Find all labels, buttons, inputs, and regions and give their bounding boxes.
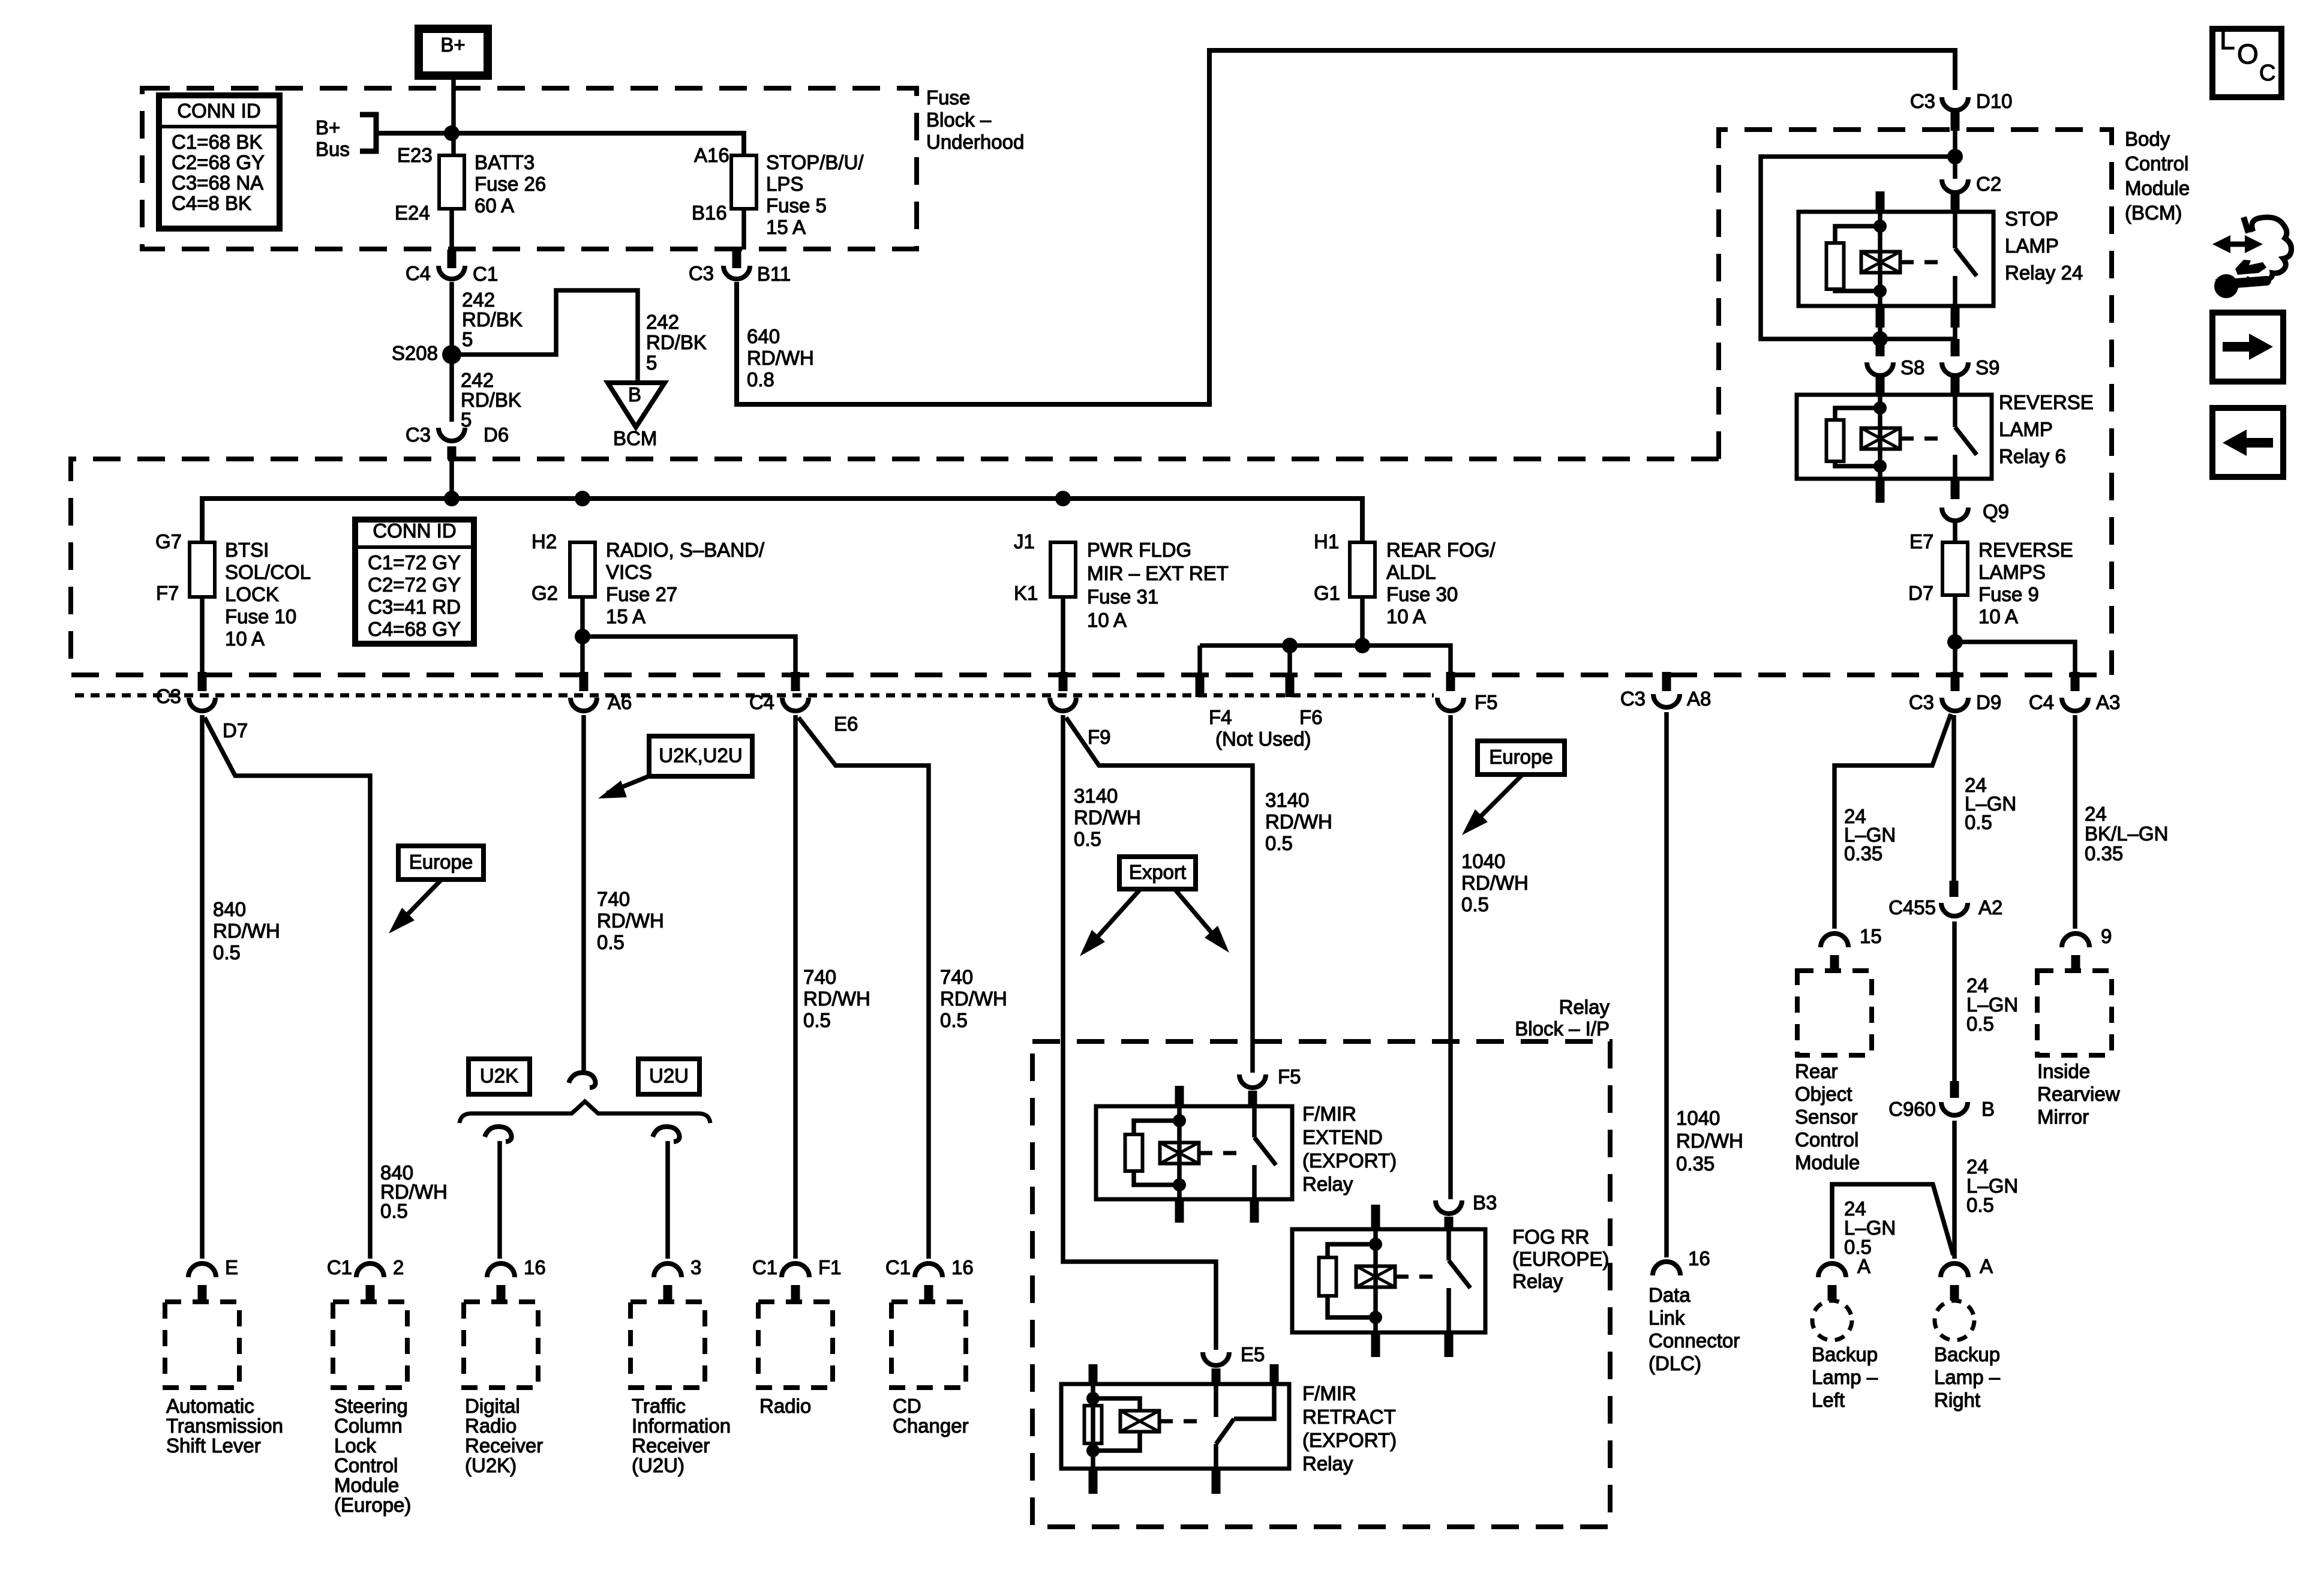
wire 242 RD/BK (S208 down) [449,362,454,422]
adjust icon (hand with wrench) [2222,242,2254,247]
svg-text:740: 740 [940,966,973,988]
svg-text:B: B [628,383,641,406]
svg-text:C455: C455 [1888,896,1936,918]
wire U2U branch [665,1141,670,1259]
svg-text:Relay 6: Relay 6 [1999,445,2066,467]
svg-text:0.5: 0.5 [940,1009,968,1031]
svg-text:REVERSE: REVERSE [1978,539,2073,561]
connector row dashed line [75,694,1434,698]
svg-text:1040: 1040 [1676,1107,1720,1129]
left arrow box [2212,408,2283,477]
svg-text:3140: 3140 [1265,789,1309,811]
wire radio fuse down [580,597,585,676]
svg-text:740: 740 [597,888,630,910]
svg-text:Mirror: Mirror [2037,1106,2089,1128]
svg-text:C3=68 NA: C3=68 NA [172,172,263,194]
svg-text:Block – I/P: Block – I/P [1515,1017,1610,1040]
svg-text:Rear: Rear [1795,1060,1838,1082]
svg-text:RD/WH: RD/WH [1676,1130,1743,1152]
connector S9 [1951,339,1960,356]
Inside Rearview Mirror box [2037,971,2112,1055]
svg-text:B+: B+ [440,34,465,56]
svg-text:C2=72 GY: C2=72 GY [368,574,461,596]
fuse BATT3 Fuse 26 60A [439,155,464,209]
wire B+ to fuse block [451,76,456,155]
svg-text:Object: Object [1795,1083,1852,1105]
svg-text:C3: C3 [1620,688,1646,710]
svg-text:BCM: BCM [613,427,657,449]
connector A6 [580,672,588,691]
svg-text:Inside: Inside [2037,1060,2090,1082]
power feed B+ box [419,29,488,76]
connector A (backup lamp right) [1941,1263,1968,1277]
svg-text:F4: F4 [1209,706,1232,728]
svg-text:RD/WH: RD/WH [747,347,814,369]
svg-text:1040: 1040 [1461,850,1505,872]
svg-text:0.5: 0.5 [380,1200,408,1222]
connector B3 (fog relay terminal) [1436,1200,1462,1214]
svg-text:SOL/COL: SOL/COL [225,561,311,583]
wire 1040 RD/WH (A8 to DLC) [1664,712,1669,1257]
Export arrow left [1087,889,1140,948]
svg-text:(DLC): (DLC) [1649,1352,1701,1374]
connector C1/2 + Steering Column Lock Control Module [356,1263,384,1277]
svg-text:CONN ID: CONN ID [177,100,260,122]
in-line connector (U2K branch) [485,1127,512,1142]
svg-text:RD/WH: RD/WH [213,920,280,942]
svg-text:CONN ID: CONN ID [373,520,456,542]
svg-text:A2: A2 [1978,896,2002,918]
svg-text:C4=8 BK: C4=8 BK [172,192,251,214]
svg-text:RD/WH: RD/WH [1265,810,1332,833]
connector C3/D10 [1942,97,1968,110]
svg-text:242: 242 [462,289,495,311]
svg-text:Fuse 31: Fuse 31 [1087,586,1158,608]
svg-text:(EXPORT): (EXPORT) [1302,1429,1397,1451]
svg-text:740: 740 [803,966,836,988]
svg-text:Data: Data [1649,1284,1691,1306]
svg-text:H1: H1 [1314,530,1339,553]
svg-text:B16: B16 [692,202,727,224]
svg-text:0.35: 0.35 [1676,1152,1715,1175]
svg-text:Fuse 9: Fuse 9 [1978,583,2039,605]
svg-text:Changer: Changer [893,1415,969,1437]
LOC reference box [2212,29,2281,97]
svg-text:C4: C4 [749,691,774,713]
svg-text:D9: D9 [1976,691,2001,713]
svg-text:15: 15 [1860,925,1882,947]
wire B+ bus [376,133,744,155]
svg-text:RD/BK: RD/BK [646,331,707,353]
svg-text:16: 16 [951,1256,974,1278]
wire 840 RD/WH (D7 to shift lever) [200,715,205,1259]
wire 24 L-GN branch to left backup lamp [1832,1184,1953,1259]
svg-text:C1: C1 [752,1256,777,1278]
fuse REVERSE LAMPS Fuse 9 [1942,542,1968,595]
svg-text:5: 5 [461,409,472,431]
svg-text:Sensor: Sensor [1795,1106,1858,1128]
svg-text:U2K: U2K [480,1065,518,1087]
svg-text:Lamp –: Lamp – [1812,1366,1878,1388]
U2K,U2U option box [649,736,752,776]
svg-text:Q9: Q9 [1983,500,2009,523]
svg-text:LOCK: LOCK [225,583,279,605]
Body Control Module dashed box [1719,130,2112,675]
svg-text:Module: Module [2125,177,2190,199]
svg-text:C3: C3 [406,424,431,446]
svg-text:0.35: 0.35 [2085,842,2123,864]
svg-text:(EXPORT): (EXPORT) [1302,1149,1397,1172]
svg-text:L: L [2220,24,2235,55]
svg-text:Lock: Lock [334,1434,376,1457]
svg-text:Receiver: Receiver [465,1434,543,1457]
svg-text:E7: E7 [1909,530,1933,553]
svg-text:(U2U): (U2U) [632,1454,684,1476]
svg-text:Automatic: Automatic [166,1395,254,1417]
connector C960/B [1950,1081,1959,1098]
svg-text:B: B [1981,1098,1995,1120]
svg-text:REVERSE: REVERSE [1999,391,2094,413]
CONN ID table (underhood fuse block) [159,95,280,229]
connector C3/B11 [732,250,741,268]
svg-text:G2: G2 [532,582,558,604]
junction dot fuse 9 output [1947,634,1963,650]
Fuse Block - Underhood dashed box [142,88,917,249]
wire branch to E6 [582,637,795,676]
svg-text:D6: D6 [484,424,509,446]
options brace U2K/U2U [460,1101,710,1123]
junction dot S8 branch [1872,331,1888,347]
relay FOG RR (EUROPE) [1292,1229,1485,1332]
connector E5 (retract relay terminal) [1203,1352,1229,1365]
svg-text:0.5: 0.5 [1461,893,1489,915]
fuse STOP/B/U/LPS Fuse 5 15A [731,155,756,209]
right arrow box [2212,313,2283,382]
wire BTSI fuse to D7 [200,597,205,676]
connector C3/A8 [1662,672,1671,691]
svg-text:C2: C2 [1976,173,2001,195]
svg-text:F7: F7 [156,582,179,604]
svg-text:STOP: STOP [2005,208,2058,230]
svg-text:Relay: Relay [1302,1173,1353,1195]
junction dot bus at fuse 31 [1055,491,1071,506]
svg-text:Transmission: Transmission [166,1415,283,1437]
svg-text:F/MIR: F/MIR [1302,1382,1356,1404]
svg-text:A: A [1857,1255,1870,1277]
U2U option box (receiver) [638,1059,699,1094]
wire 24 L-GN (C455 to C960) [1952,921,1957,1081]
svg-text:Backup: Backup [1934,1343,2000,1365]
svg-text:A8: A8 [1687,688,1711,710]
svg-text:C1=68 BK: C1=68 BK [172,131,262,153]
relay STOP LAMP Relay 24 [1798,212,1993,306]
svg-text:D7: D7 [1908,582,1933,604]
svg-text:RD/WH: RD/WH [597,909,664,932]
svg-text:S9: S9 [1975,356,1999,379]
svg-text:RD/WH: RD/WH [803,987,870,1010]
wire 242 RD/BK (S208 to BCM B) [452,290,638,383]
svg-text:24: 24 [2085,803,2107,825]
svg-text:Block –: Block – [926,109,992,131]
svg-text:E: E [225,1256,238,1278]
svg-text:F5: F5 [1278,1065,1301,1088]
in-line connector (A6 harness) [569,1073,596,1088]
svg-text:C3: C3 [1910,90,1935,112]
svg-text:(U2K): (U2K) [465,1454,517,1476]
svg-text:F/MIR: F/MIR [1302,1103,1356,1125]
wire Q9 to fuse 9 [1953,521,1957,542]
svg-text:RETRACT: RETRACT [1302,1406,1396,1428]
svg-text:C1: C1 [473,263,498,285]
svg-text:Fuse 10: Fuse 10 [225,605,296,628]
wire 840 RD/WH Europe branch [205,718,370,1259]
connector C4/C1 [448,250,457,268]
svg-text:B+: B+ [316,116,340,139]
connector C4/A3 [2071,672,2080,691]
svg-text:C4: C4 [2029,691,2054,713]
connector C455/A2 [1950,881,1959,897]
svg-text:Radio: Radio [465,1415,517,1437]
connector C3/D9 [1951,672,1960,691]
svg-text:Fuse 30: Fuse 30 [1386,583,1458,605]
svg-text:Fuse: Fuse [926,86,970,109]
svg-text:242: 242 [461,369,494,391]
svg-text:16: 16 [524,1256,546,1278]
Europe arrow (b) [1469,775,1523,828]
svg-text:H2: H2 [532,530,557,553]
svg-text:(BCM): (BCM) [2125,202,2182,224]
wire fuse 31 to F9 [1061,597,1065,676]
svg-text:Relay: Relay [1559,996,1610,1018]
svg-text:F9: F9 [1088,726,1111,748]
svg-text:B11: B11 [757,263,791,285]
svg-text:Control: Control [1795,1128,1858,1151]
svg-text:Left: Left [1812,1389,1845,1411]
svg-text:Europe: Europe [1489,746,1553,768]
svg-text:F1: F1 [818,1256,842,1278]
fuse REAR FOG/ALDL Fuse 30 [1350,542,1375,597]
svg-text:K1: K1 [1014,582,1038,604]
svg-text:0.5: 0.5 [803,1009,831,1031]
svg-text:BK/L–GN: BK/L–GN [2085,822,2168,845]
svg-text:Information: Information [632,1415,731,1437]
svg-text:5: 5 [462,328,473,350]
svg-text:F6: F6 [1299,706,1323,728]
wire U2K branch [497,1141,502,1259]
CONN ID table (I/P connectors) [355,520,474,644]
wire fuse 30 to F4/F6/F5 [1360,597,1365,646]
connector C4/E6 [791,672,800,691]
svg-text:LAMP: LAMP [2005,235,2059,257]
Europe option box (fog rr) [1478,741,1565,775]
svg-text:RD/WH: RD/WH [1461,872,1529,894]
svg-text:C: C [2259,61,2275,86]
wire 740 RD/WH (E6 to radio) [793,715,798,1259]
svg-text:PWR FLDG: PWR FLDG [1087,539,1191,561]
svg-text:Fuse 27: Fuse 27 [606,583,677,605]
relay F/MIR RETRACT (EXPORT) [1061,1384,1289,1469]
wire 242 RD/BK (C1 to S208) [449,282,454,347]
svg-text:840: 840 [213,898,246,920]
connector 3 + Traffic Information Receiver [654,1263,681,1277]
svg-text:ALDL: ALDL [1386,561,1436,583]
svg-text:Control: Control [334,1454,398,1476]
svg-text:Lamp –: Lamp – [1934,1366,2001,1388]
svg-text:C1: C1 [885,1256,911,1278]
connector A (backup lamp left) [1818,1263,1846,1277]
svg-text:Export: Export [1129,861,1186,883]
wire 1040 RD/WH (F5 to fog relay) [1448,715,1453,1199]
svg-text:Steering: Steering [334,1395,408,1417]
svg-text:U2K,U2U: U2K,U2U [659,745,742,767]
svg-text:Europe: Europe [409,851,473,873]
svg-text:Link: Link [1649,1307,1685,1329]
svg-text:Module: Module [334,1474,399,1496]
svg-text:BTSI: BTSI [225,539,269,561]
svg-text:Receiver: Receiver [632,1434,710,1457]
svg-text:(Not Used): (Not Used) [1215,728,1311,750]
svg-text:E23: E23 [397,144,433,166]
svg-text:Digital: Digital [465,1395,520,1417]
svg-text:C4=68 GY: C4=68 GY [368,618,461,640]
svg-text:60 A: 60 A [475,194,514,217]
svg-text:Backup: Backup [1812,1343,1878,1365]
svg-text:Relay: Relay [1302,1452,1353,1475]
wire BCM loop to reverse relay [1761,157,1955,339]
svg-text:J1: J1 [1014,530,1035,553]
junction dot bus at D6 feed [444,491,460,506]
backup lamp right symbol [1935,1301,1974,1340]
wire 740 RD/WH (A6 down) [581,715,586,1074]
svg-text:C3: C3 [156,685,181,707]
svg-text:D10: D10 [1976,90,2013,112]
svg-text:REAR FOG/: REAR FOG/ [1386,539,1496,561]
wire 3140 RD/WH (F9 to extend relay) [1066,718,1253,1073]
svg-text:VICS: VICS [606,561,652,583]
svg-text:RADIO, S–BAND/: RADIO, S–BAND/ [606,539,765,561]
svg-text:10 A: 10 A [225,628,265,650]
svg-text:S8: S8 [1900,356,1924,379]
wire D6 to bus [449,460,454,499]
svg-text:S208: S208 [392,342,438,364]
BCM B triangle destination [608,383,665,427]
svg-text:MIR – EXT RET: MIR – EXT RET [1087,562,1229,584]
svg-text:EXTEND: EXTEND [1302,1126,1383,1148]
wire D10 to C2 [1953,131,1957,179]
svg-text:LPS: LPS [766,173,803,195]
relay REVERSE LAMP Relay 6 [1797,395,1992,479]
svg-text:G7: G7 [155,530,182,553]
svg-text:A: A [1980,1255,1993,1277]
U2K,U2U arrow [607,776,648,793]
svg-text:0.5: 0.5 [597,931,624,953]
svg-text:RD/BK: RD/BK [462,308,523,331]
junction dot BCM feed [1947,149,1963,164]
Europe arrow (a) [396,879,442,926]
svg-text:16: 16 [1688,1247,1710,1269]
svg-text:BATT3: BATT3 [475,151,535,173]
svg-text:0.5: 0.5 [213,941,241,963]
svg-text:LAMPS: LAMPS [1978,561,2046,583]
svg-text:C3: C3 [689,262,714,284]
svg-text:B3: B3 [1473,1191,1497,1214]
wire 3140 RD/WH (F9 to retract relay) [1063,715,1216,1350]
svg-text:FOG RR: FOG RR [1512,1226,1589,1248]
in-line connector (U2U branch) [653,1127,680,1142]
Rear Object Sensor Control Module box [1797,971,1872,1055]
svg-text:Connector: Connector [1649,1329,1740,1352]
svg-text:15 A: 15 A [766,216,806,238]
relay F/MIR EXTEND (EXPORT) [1096,1106,1292,1199]
svg-text:0.5: 0.5 [1965,811,1992,833]
svg-text:0.5: 0.5 [1265,832,1293,854]
svg-text:STOP/B/U/: STOP/B/U/ [766,151,864,173]
wire STOP fuse to connector [741,209,746,250]
junction dot fuse 30 drop [1355,638,1370,653]
connector E + Automatic Transmission Shift Lever [188,1263,216,1277]
wire fuse 9 to D9 [1953,595,1957,676]
wire A3 to mirror [2073,715,2077,929]
backup lamp left symbol [1812,1301,1852,1340]
terminal F6 (not used) [1286,674,1295,697]
svg-text:Fuse 5: Fuse 5 [766,194,827,217]
svg-text:Control: Control [2125,152,2188,175]
wire 640 RD/WH to BCM [737,50,1955,404]
connector 16 (DLC) [1653,1262,1680,1275]
svg-text:E24: E24 [395,202,430,224]
svg-text:C1: C1 [327,1256,352,1278]
svg-text:E5: E5 [1241,1343,1265,1365]
svg-text:Rearview: Rearview [2037,1083,2120,1105]
svg-text:D7: D7 [223,719,248,742]
svg-text:Traffic: Traffic [632,1395,686,1417]
junction dot B+ bus [444,125,460,141]
splice S208 [442,345,461,364]
svg-text:10 A: 10 A [1386,605,1426,628]
wire F6 drop [1287,646,1292,674]
svg-text:C3=41 RD: C3=41 RD [368,596,461,618]
svg-text:F5: F5 [1475,691,1498,713]
Export option box [1119,857,1196,889]
svg-text:(Europe): (Europe) [334,1494,411,1516]
wire 740 RD/WH (E6 to CD changer) [798,718,929,1259]
connector F5 (extend relay terminal) [1239,1074,1266,1088]
svg-text:2: 2 [393,1256,404,1278]
svg-text:10 A: 10 A [1978,605,2018,628]
svg-text:C960: C960 [1888,1098,1936,1120]
wire 24 L-GN (D9 to C455) [1951,715,1956,881]
bus wire inside fuse block [202,499,1362,542]
junction dot F6 [1282,638,1298,653]
svg-text:C1=72 GY: C1=72 GY [368,551,461,574]
svg-text:Module: Module [1795,1151,1860,1173]
svg-text:(EUROPE): (EUROPE) [1512,1248,1609,1270]
svg-text:U2U: U2U [649,1065,689,1087]
connector 16 + Digital Radio Receiver [487,1263,515,1277]
connector Q9 [1942,508,1968,521]
svg-text:A3: A3 [2096,691,2120,713]
svg-text:Body: Body [2125,128,2170,150]
svg-text:Shift Lever: Shift Lever [166,1434,261,1457]
connector C3/D6 [439,428,465,441]
svg-text:5: 5 [646,352,657,374]
svg-text:15 A: 15 A [606,605,645,628]
svg-text:RD/WH: RD/WH [940,987,1007,1010]
svg-text:Relay 24: Relay 24 [2005,262,2083,284]
svg-text:Column: Column [334,1415,403,1437]
wire 24 L-GN (D9 to rear object sensor) [1834,714,1951,929]
svg-text:0.5: 0.5 [1966,1194,1994,1216]
